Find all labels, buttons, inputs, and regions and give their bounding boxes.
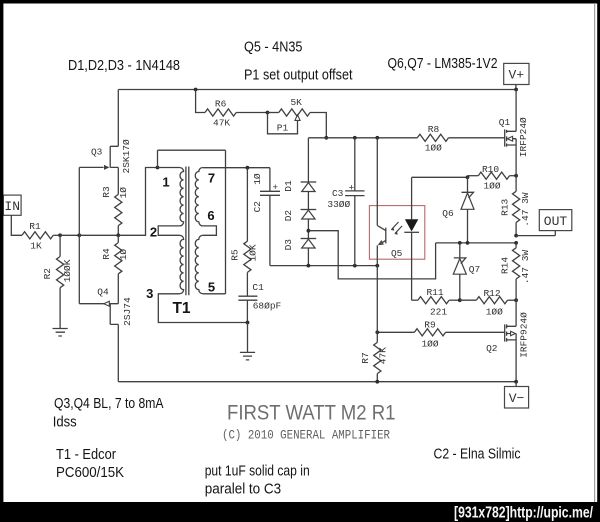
svg-text:R7: R7 — [360, 352, 371, 363]
svg-text:+: + — [272, 182, 278, 193]
svg-text:1Ø: 1Ø — [252, 173, 263, 185]
svg-text:IRFP24Ø: IRFP24Ø — [518, 117, 529, 157]
wire LED cathode to R11 — [412, 299, 418, 301]
node P1 to mid rail — [324, 136, 328, 140]
port IN — [3, 195, 21, 215]
svg-text:V+: V+ — [508, 68, 524, 83]
transistor Q4 2SJ74 — [109, 304, 111, 325]
transistor Q3 2SK170 — [109, 146, 111, 167]
wire bottom long rail — [118, 381, 516, 383]
svg-text:V−: V− — [509, 391, 525, 406]
node R11/R12/Q7 junction — [458, 298, 462, 302]
resistor R4 — [117, 235, 119, 242]
svg-text:221: 221 — [430, 307, 447, 318]
svg-text:R5: R5 — [230, 249, 241, 261]
node R3/R4 input junction — [116, 233, 120, 237]
transistor Q2 IRFP9240 — [504, 324, 506, 341]
svg-text:Q4: Q4 — [97, 286, 109, 297]
svg-text:P1 set output offset: P1 set output offset — [244, 68, 353, 84]
port OUT — [516, 231, 555, 236]
wire T1 pin3 lead — [158, 294, 247, 323]
wire T1 pin7 to C2/R5 — [203, 167, 270, 169]
node Q6 bottom junction — [466, 241, 470, 245]
svg-text:R10: R10 — [482, 164, 499, 175]
svg-text:68ØpF: 68ØpF — [253, 301, 282, 312]
transformer T1 secondary winding lower (pin6-pin5) — [195, 235, 203, 293]
svg-text:Q3,Q4 BL, 7 to 8mA: Q3,Q4 BL, 7 to 8mA — [54, 396, 164, 412]
svg-text:33ØØ: 33ØØ — [327, 199, 350, 210]
svg-text:1ØØ: 1ØØ — [486, 307, 503, 318]
node V+ junction — [514, 88, 518, 92]
svg-text:C3: C3 — [332, 188, 344, 199]
wire T1 riser and pin5 loop — [158, 150, 226, 294]
resistor R1 — [22, 232, 53, 239]
svg-text:Idss: Idss — [53, 415, 77, 431]
svg-text:+: + — [349, 183, 355, 194]
svg-text:Q3: Q3 — [91, 146, 103, 157]
wire Q3 drain to top rail — [117, 90, 119, 147]
wire D1 to D2 — [307, 192, 309, 210]
port V+ — [504, 63, 529, 84]
svg-text:R3: R3 — [101, 186, 112, 198]
node gate line junction — [77, 233, 81, 237]
wire T1 pin2 tap — [158, 226, 179, 235]
node R10 right on output rail — [514, 174, 518, 178]
svg-text:T1: T1 — [172, 300, 190, 317]
node C3 bottom junction — [353, 264, 357, 268]
resistor R5 — [246, 168, 248, 242]
svg-text:R12: R12 — [483, 288, 500, 299]
resistor R6 — [196, 90, 205, 113]
resistor R13 .47 3W — [515, 176, 517, 192]
resistor R3 — [115, 194, 122, 225]
capacitor C1 680pF — [238, 296, 257, 300]
diode D2 1N4148 — [301, 209, 317, 211]
svg-text:5: 5 — [208, 279, 215, 294]
svg-text:R4: R4 — [101, 248, 112, 260]
node OUT junction — [514, 234, 518, 238]
resistor R2 — [59, 235, 61, 256]
svg-text:IN: IN — [4, 199, 20, 214]
resistor R12 — [460, 299, 477, 301]
transistor Q1 IRFP240 — [504, 129, 506, 146]
wire LED anode to Q6 node — [412, 176, 468, 178]
node input junction R1/R2 — [58, 233, 62, 237]
svg-text:C2: C2 — [252, 201, 263, 213]
svg-text:T1 - Edcor: T1 - Edcor — [56, 447, 116, 463]
wire gate vertical Q3-Q4 — [78, 167, 80, 303]
wire input node to gate line — [60, 234, 79, 236]
resistor R9 — [377, 331, 414, 333]
opto Q5 phototransistor — [376, 138, 378, 226]
capacitor C3 3300 — [354, 138, 356, 191]
node R7 bottom junction — [375, 380, 379, 384]
diode D3 1N4148 — [301, 238, 317, 240]
resistor R8 — [417, 134, 448, 141]
svg-text:Q5: Q5 — [391, 248, 403, 259]
node R12 right on output rail — [514, 298, 518, 302]
node D3 bottom junction — [307, 264, 311, 268]
svg-text:1ØK: 1ØK — [248, 244, 259, 261]
svg-text:D1,D2,D3 - 1N4148: D1,D2,D3 - 1N4148 — [68, 58, 180, 74]
svg-text:C2 - Elna Silmic: C2 - Elna Silmic — [434, 447, 521, 463]
svg-text:Q5 - 4N35: Q5 - 4N35 — [244, 40, 303, 56]
svg-text:PC600/15K: PC600/15K — [56, 465, 124, 481]
node Q6/LED/R10 junction — [466, 175, 470, 179]
diode Q6 LM385 — [467, 177, 469, 192]
ground below R2 — [53, 329, 68, 337]
wire mid rail left segment — [308, 137, 417, 139]
svg-text:Q2: Q2 — [486, 343, 498, 354]
resistor R7 — [374, 342, 381, 373]
svg-text:[931x782]http://upic.me/: [931x782]http://upic.me/ — [454, 505, 594, 522]
wire input node to T1 pin1 — [118, 168, 157, 236]
svg-text:(C) 2010 GENERAL AMPLIFIER: (C) 2010 GENERAL AMPLIFIER — [222, 429, 390, 443]
wire IN to R1 — [11, 215, 22, 235]
port V- — [515, 382, 517, 387]
svg-text:2: 2 — [150, 224, 157, 239]
node R6/P1 wiper junction — [266, 111, 270, 115]
svg-text:R1: R1 — [29, 221, 41, 232]
svg-text:R14: R14 — [500, 257, 511, 274]
capacitor C2 — [269, 168, 271, 192]
transformer T1 primary winding upper (pin1-pin2) — [180, 168, 184, 226]
svg-text:put 1uF solid cap in: put 1uF solid cap in — [205, 464, 310, 480]
svg-text:3: 3 — [146, 286, 153, 301]
svg-text:7: 7 — [208, 171, 215, 186]
opto Q5 LED — [411, 177, 413, 219]
svg-text:IRFP924Ø: IRFP924Ø — [518, 312, 529, 358]
node opto collector branch top — [375, 136, 379, 140]
wire bottom rail — [270, 265, 377, 267]
wire Q4 source down to bottom rail — [117, 324, 119, 381]
svg-text:Q6: Q6 — [442, 208, 454, 219]
wire P1 wiper loop — [268, 113, 298, 134]
node R9 branch — [375, 330, 379, 334]
ground below C1 — [247, 323, 249, 353]
transformer T1 primary winding lower (pin2-pin3) — [180, 235, 184, 293]
resistor R11 — [418, 297, 449, 304]
svg-text:R2: R2 — [42, 268, 53, 280]
svg-text:D3: D3 — [283, 239, 294, 251]
svg-text:2SK17Ø: 2SK17Ø — [121, 139, 132, 174]
svg-text:6: 6 — [207, 208, 214, 223]
wire opto emitter down to R7 — [376, 266, 378, 343]
svg-text:OUT: OUT — [544, 214, 568, 229]
wire top rail — [118, 89, 516, 91]
svg-text:Q7: Q7 — [469, 264, 480, 275]
svg-text:R6: R6 — [215, 99, 227, 110]
svg-text:FIRST WATT M2 R1: FIRST WATT M2 R1 — [227, 401, 396, 425]
svg-text:1: 1 — [162, 175, 169, 190]
opto-isolator Q5 4N35 box — [369, 206, 424, 260]
svg-text:1ØØ: 1ØØ — [483, 181, 500, 192]
svg-text:1ØØ: 1ØØ — [421, 339, 438, 350]
svg-text:C1: C1 — [252, 282, 264, 293]
wire D2 to D3 — [307, 219, 309, 239]
diode D1 1N4148 — [301, 181, 317, 183]
wire Q3 gate lead — [79, 166, 103, 168]
node D2/D3 junction — [307, 229, 311, 233]
wire mid rail corner down to D1 — [307, 138, 309, 182]
svg-text:2SJ74: 2SJ74 — [122, 297, 133, 326]
svg-text:1K: 1K — [30, 241, 42, 252]
svg-text:.47 3W: .47 3W — [520, 250, 531, 285]
svg-text:P1: P1 — [277, 122, 289, 133]
svg-text:R9: R9 — [424, 320, 436, 331]
node opto emitter junction — [375, 264, 379, 268]
node C3 branch top — [353, 136, 357, 140]
svg-text:5K: 5K — [290, 97, 302, 108]
node T1 pin1 riser junction — [156, 166, 160, 170]
node junction line to output rail — [514, 241, 518, 245]
wire D2/D3 junction to Q6/Q7 return — [308, 231, 435, 279]
node V- junction — [514, 380, 518, 384]
svg-text:R13: R13 — [500, 198, 511, 215]
transformer T1 secondary winding upper (pin7-pin6) — [195, 168, 203, 226]
transformer T1 core — [186, 167, 189, 296]
wire T1 pin1 to primary top — [158, 167, 180, 169]
wire P1 right end down to mid rail — [310, 113, 326, 138]
wire V+ box to rail — [515, 85, 517, 90]
svg-text:paralel to C3: paralel to C3 — [205, 482, 282, 498]
node C1/T1 pin3 junction — [246, 321, 250, 325]
svg-text:1ØØ: 1ØØ — [425, 143, 442, 154]
wire R1 to input node — [53, 234, 60, 236]
svg-text:1ØØK: 1ØØK — [62, 259, 73, 282]
wire R8 to Q1 gate — [449, 137, 505, 139]
node Q7 top junction — [458, 241, 462, 245]
potentiometer P1 5K — [279, 109, 310, 116]
opto Q5 light arrows — [392, 222, 403, 234]
svg-text:47K: 47K — [378, 347, 389, 364]
node R5 top junction — [246, 166, 250, 170]
svg-text:47K: 47K — [213, 118, 230, 129]
resistor R14 .47 3W — [515, 243, 517, 248]
diode Q7 LM385 — [459, 243, 461, 258]
node R6 branch — [194, 88, 198, 92]
wire T1 pin6 tap — [203, 226, 217, 235]
wire Q3 source to R3 — [117, 167, 119, 194]
wire gate node to R3/R4 node — [79, 234, 118, 236]
wire Q6/Q7 junction line — [436, 242, 516, 244]
wire D3 to bottom rail — [307, 248, 309, 266]
svg-text:Q1: Q1 — [499, 117, 511, 128]
svg-text:R11: R11 — [426, 287, 443, 298]
wire Q4 gate lead — [79, 303, 104, 305]
svg-text:D2: D2 — [283, 210, 294, 222]
svg-text:1Ø: 1Ø — [118, 249, 129, 261]
svg-text:R8: R8 — [428, 124, 440, 135]
svg-text:.47 3W: .47 3W — [520, 192, 531, 227]
svg-text:1Ø: 1Ø — [118, 187, 129, 199]
svg-text:D1: D1 — [283, 180, 294, 192]
svg-text:Q6,Q7 - LM385-1V2: Q6,Q7 - LM385-1V2 — [388, 56, 498, 72]
resistor R10 — [468, 175, 479, 177]
